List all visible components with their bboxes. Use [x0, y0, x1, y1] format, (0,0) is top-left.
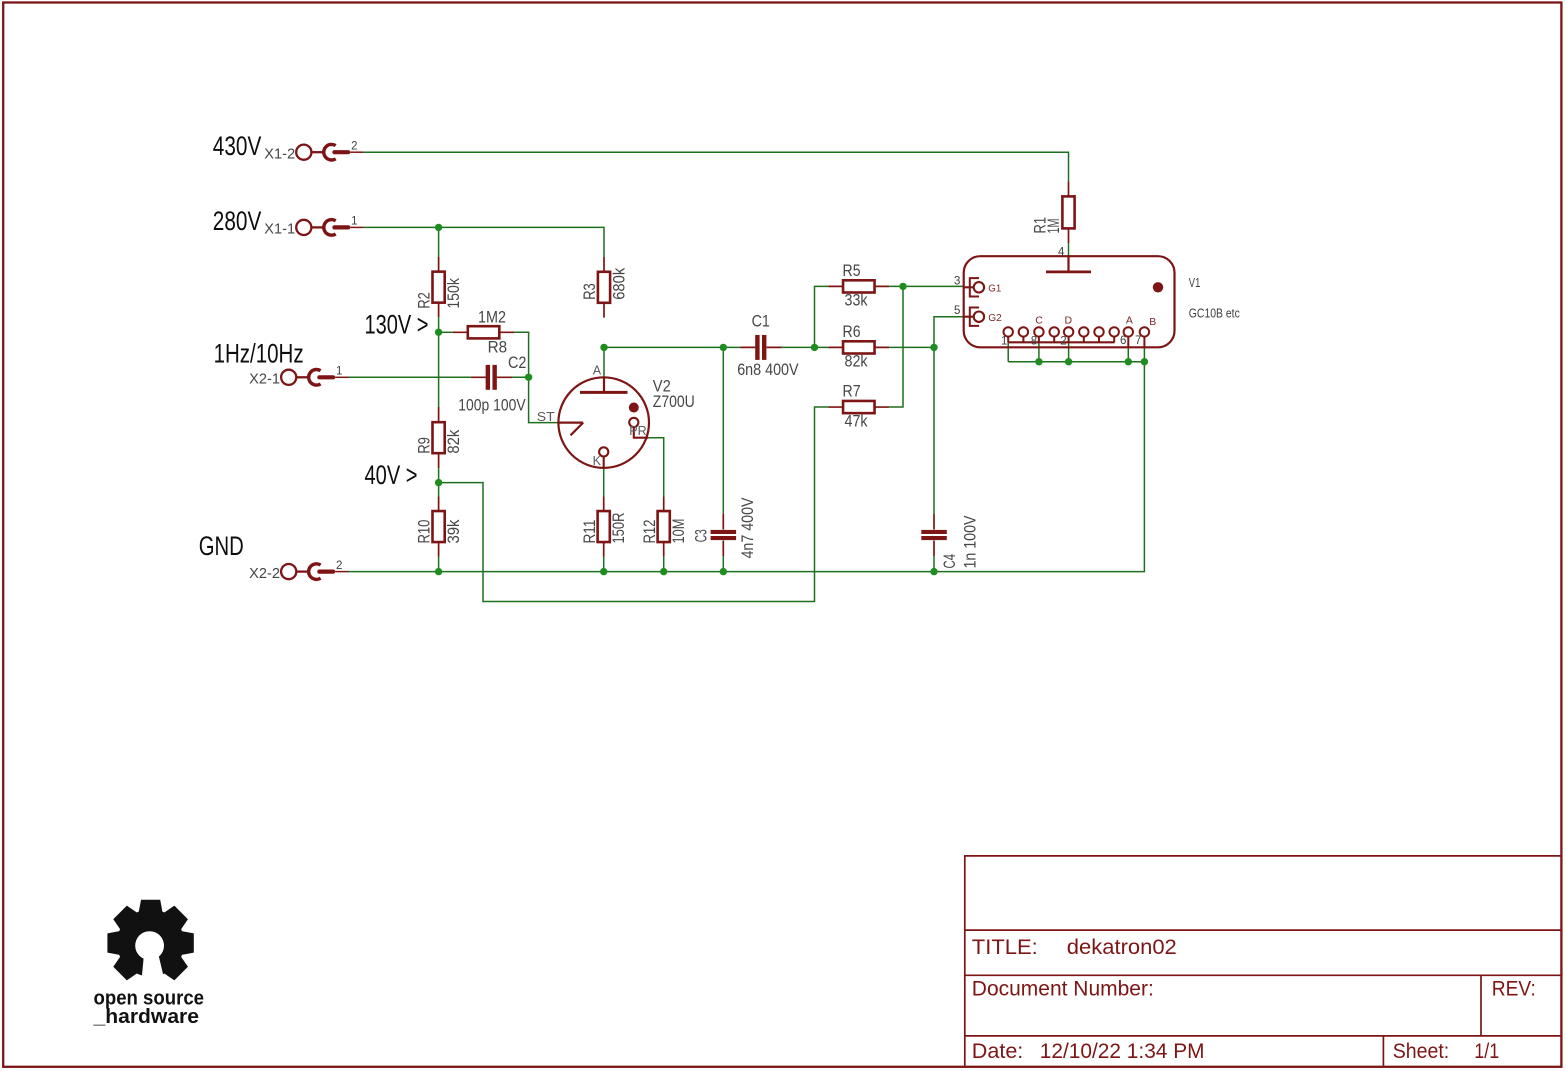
- svg-text:12/10/22 1:34 PM: 12/10/22 1:34 PM: [1040, 1040, 1205, 1063]
- V2 cathode (K) electrode: [599, 447, 608, 456]
- svg-text:X1-1: X1-1: [264, 222, 295, 238]
- wire R1 bottom to V1 pin4: [1068, 243, 1070, 256]
- wire R5 right to G1 pin 3: [889, 285, 964, 287]
- connector X1-1 (280V input): [296, 220, 311, 235]
- connector X2-1 (clock input): [281, 370, 296, 385]
- wire dekatron cathode bus: [1008, 361, 1144, 363]
- capacitor C1 pins: [741, 346, 782, 348]
- svg-text:R8: R8: [488, 338, 508, 356]
- svg-text:REV:: REV:: [1492, 978, 1536, 1001]
- svg-text:GC10B etc: GC10B etc: [1189, 307, 1240, 321]
- capacitor C2: [486, 365, 490, 390]
- svg-text:R9: R9: [416, 437, 434, 454]
- junction C1-R5-R6 node: [811, 344, 818, 351]
- svg-text:C: C: [1035, 314, 1043, 326]
- wire 40V branch to R7: [439, 407, 829, 601]
- svg-text:2: 2: [351, 141, 357, 153]
- wire V2 PR to R12: [648, 438, 663, 497]
- svg-text:6n8 400V: 6n8 400V: [737, 361, 798, 379]
- wire R2 top branch: [438, 227, 440, 257]
- svg-text:K: K: [593, 454, 602, 468]
- resistor R12: [663, 497, 665, 557]
- svg-text:_hardware: _hardware: [92, 1006, 199, 1028]
- svg-text:1: 1: [336, 366, 342, 378]
- svg-text:2: 2: [336, 560, 342, 572]
- junction R10-GND: [435, 568, 442, 575]
- svg-text:dekatron02: dekatron02: [1067, 936, 1177, 959]
- wire pinD stub: [1068, 342, 1070, 361]
- svg-text:R3: R3: [581, 283, 599, 300]
- wire pinB stub: [1143, 347, 1145, 361]
- capacitor C4 pins: [933, 514, 935, 556]
- svg-text:Z700U: Z700U: [653, 393, 695, 411]
- svg-text:33k: 33k: [845, 292, 869, 310]
- wire pinA stub: [1127, 347, 1129, 361]
- junction cathode bus C: [1035, 358, 1042, 365]
- V1 guide electrode G2 (pin 5): [964, 316, 974, 318]
- V1 gas-filled dot: [1153, 282, 1163, 292]
- wire pin1 stub: [1007, 342, 1009, 361]
- svg-text:430V: 430V: [213, 131, 262, 161]
- svg-text:150R: 150R: [610, 512, 628, 543]
- wire V2 cathode down: [603, 468, 605, 497]
- wire 130V to R8: [439, 331, 453, 333]
- resistor R5: [828, 285, 889, 287]
- svg-text:C4: C4: [941, 554, 959, 569]
- svg-text:G1: G1: [988, 282, 1001, 294]
- svg-text:C1: C1: [752, 313, 770, 331]
- svg-text:ST: ST: [537, 410, 555, 424]
- svg-text:1: 1: [1001, 335, 1007, 347]
- junction R12-GND: [660, 568, 667, 575]
- resistor R8: [453, 331, 515, 333]
- resistor R7: [828, 406, 889, 408]
- svg-text:R5: R5: [843, 262, 861, 280]
- junction cathode bus A: [1125, 358, 1132, 365]
- svg-text:R11: R11: [581, 520, 599, 544]
- wire X2-1 to C2: [348, 376, 471, 378]
- V2 anode electrode: [603, 377, 605, 392]
- junction C1-C3 node: [720, 344, 727, 351]
- svg-text:A: A: [593, 364, 602, 378]
- wire G2 pin 5 to column: [934, 317, 964, 348]
- V1 pin 4 anode: [1067, 256, 1069, 272]
- svg-text:GND: GND: [199, 531, 244, 561]
- svg-text:7: 7: [1135, 335, 1141, 347]
- V1 guide electrode G1 (pin 3): [964, 286, 974, 288]
- capacitor C1: [755, 335, 759, 360]
- junction C3-GND: [720, 568, 727, 575]
- wire C3 bottom to GND: [722, 556, 724, 572]
- junction R11-GND: [600, 568, 607, 575]
- wire C1 right up to R5 left: [815, 286, 829, 347]
- wire R8 right down to C2 node: [514, 332, 528, 377]
- svg-text:1/1: 1/1: [1474, 1040, 1499, 1063]
- resistor R6: [828, 346, 889, 348]
- wire GND bus: [348, 362, 1145, 572]
- resistor R10: [438, 497, 440, 557]
- junction C4-GND: [930, 568, 937, 575]
- capacitor C2 pins: [471, 376, 512, 378]
- connector X1-2 (430V input): [296, 145, 311, 160]
- open source hardware logo: [117, 910, 184, 977]
- wire R11 bottom to GND: [603, 557, 605, 572]
- capacitor C3: [711, 530, 737, 534]
- junction anode-R3-C1: [600, 344, 607, 351]
- svg-text:82k: 82k: [445, 429, 463, 454]
- svg-text:5: 5: [954, 305, 960, 317]
- svg-text:B: B: [1149, 316, 1156, 328]
- wire R10 bottom to GND: [438, 557, 440, 572]
- capacitor C3 pins: [722, 514, 724, 556]
- wire R6 right to G2 column: [889, 346, 934, 348]
- svg-text:40V >: 40V >: [365, 460, 418, 490]
- svg-text:280V: 280V: [213, 206, 262, 236]
- svg-text:X2-1: X2-1: [249, 372, 280, 388]
- wire G2 column down through C4: [933, 347, 935, 513]
- wire C1 right to R6 left: [782, 346, 829, 348]
- svg-text:G2: G2: [988, 312, 1002, 324]
- svg-text:R2: R2: [416, 292, 434, 309]
- svg-text:R6: R6: [843, 323, 861, 341]
- svg-text:X1-2: X1-2: [264, 147, 295, 163]
- svg-text:Document Number:: Document Number:: [972, 978, 1154, 1001]
- svg-text:Date:: Date:: [972, 1040, 1024, 1063]
- svg-text:1M2: 1M2: [478, 308, 506, 326]
- resistor R3: [603, 257, 605, 318]
- svg-text:R7: R7: [843, 383, 861, 401]
- wire C3 top: [722, 347, 724, 513]
- junction R5-R7-G1 node: [899, 283, 906, 290]
- wire R12 bottom to GND: [663, 557, 665, 572]
- dekatron V1 body: [964, 256, 1175, 347]
- V1 cathode pin circles: [1004, 327, 1013, 336]
- resistor R9: [438, 407, 440, 468]
- wire 430V net: [364, 152, 1069, 181]
- svg-text:82k: 82k: [845, 353, 869, 371]
- svg-text:1n 100V: 1n 100V: [962, 516, 980, 569]
- resistor R2: [438, 257, 440, 317]
- svg-text:39k: 39k: [445, 519, 463, 544]
- wire C2 node to ST: [529, 377, 559, 422]
- svg-text:4: 4: [1058, 246, 1065, 258]
- V2 gas-filled dot: [629, 403, 639, 413]
- resistor R1: [1068, 181, 1070, 243]
- wire anode node to C1: [604, 346, 741, 348]
- connector X2-2 (ground): [281, 564, 296, 579]
- svg-text:8: 8: [1031, 335, 1037, 347]
- svg-text:A: A: [1126, 314, 1133, 326]
- svg-text:1M: 1M: [1045, 219, 1063, 234]
- svg-text:130V >: 130V >: [365, 309, 429, 339]
- svg-text:47k: 47k: [845, 412, 869, 430]
- svg-text:D: D: [1065, 314, 1073, 326]
- junction R6-G2-C4 node: [930, 344, 937, 351]
- wire C4 bottom to GND: [933, 556, 935, 572]
- junction cathode bus B: [1141, 358, 1148, 365]
- svg-text:R12: R12: [641, 520, 659, 544]
- capacitor C4: [921, 530, 947, 534]
- V1 internal cathode bus: [1008, 341, 1114, 343]
- junction 130V node: [435, 329, 442, 336]
- V2 trigger (ST) electrode: [559, 423, 584, 436]
- junction cathode bus D: [1065, 358, 1072, 365]
- svg-text:R10: R10: [416, 520, 434, 544]
- wire R2-R9 column / 130V node: [438, 317, 440, 407]
- svg-text:150k: 150k: [445, 278, 463, 309]
- svg-text:TITLE:: TITLE:: [972, 936, 1038, 959]
- svg-text:X2-2: X2-2: [249, 566, 280, 582]
- svg-text:3: 3: [954, 276, 960, 288]
- svg-text:C3: C3: [692, 529, 710, 542]
- svg-text:10M: 10M: [670, 519, 688, 544]
- svg-text:PR: PR: [629, 424, 646, 438]
- wire pinC stub: [1038, 342, 1040, 361]
- svg-text:6: 6: [1120, 335, 1126, 347]
- resistor R11: [603, 497, 605, 557]
- svg-text:100p 100V: 100p 100V: [458, 397, 525, 415]
- title block: [965, 856, 1562, 1067]
- V2 primer (PR) electrode: [629, 418, 638, 427]
- wire R7 right up to R5 right: [889, 286, 903, 407]
- trigger tube V2 Z700U envelope: [558, 377, 649, 468]
- wire V2 anode: [603, 347, 605, 377]
- svg-text:2: 2: [1060, 335, 1066, 347]
- wire C2 right: [497, 376, 529, 378]
- wire R9-R10 column / 40V node: [438, 468, 440, 496]
- svg-text:680k: 680k: [610, 267, 628, 300]
- svg-text:C2: C2: [508, 354, 526, 372]
- svg-text:1: 1: [351, 216, 357, 228]
- wire 280V net: [364, 227, 604, 257]
- svg-text:V1: V1: [1189, 276, 1201, 290]
- svg-text:1Hz/10Hz: 1Hz/10Hz: [214, 339, 304, 369]
- junction C2-R8-ST node: [525, 374, 532, 381]
- junction 280V-R2: [435, 224, 442, 231]
- svg-text:4n7 400V: 4n7 400V: [739, 498, 757, 559]
- junction 40V node: [435, 479, 442, 486]
- svg-text:Sheet:: Sheet:: [1393, 1040, 1450, 1063]
